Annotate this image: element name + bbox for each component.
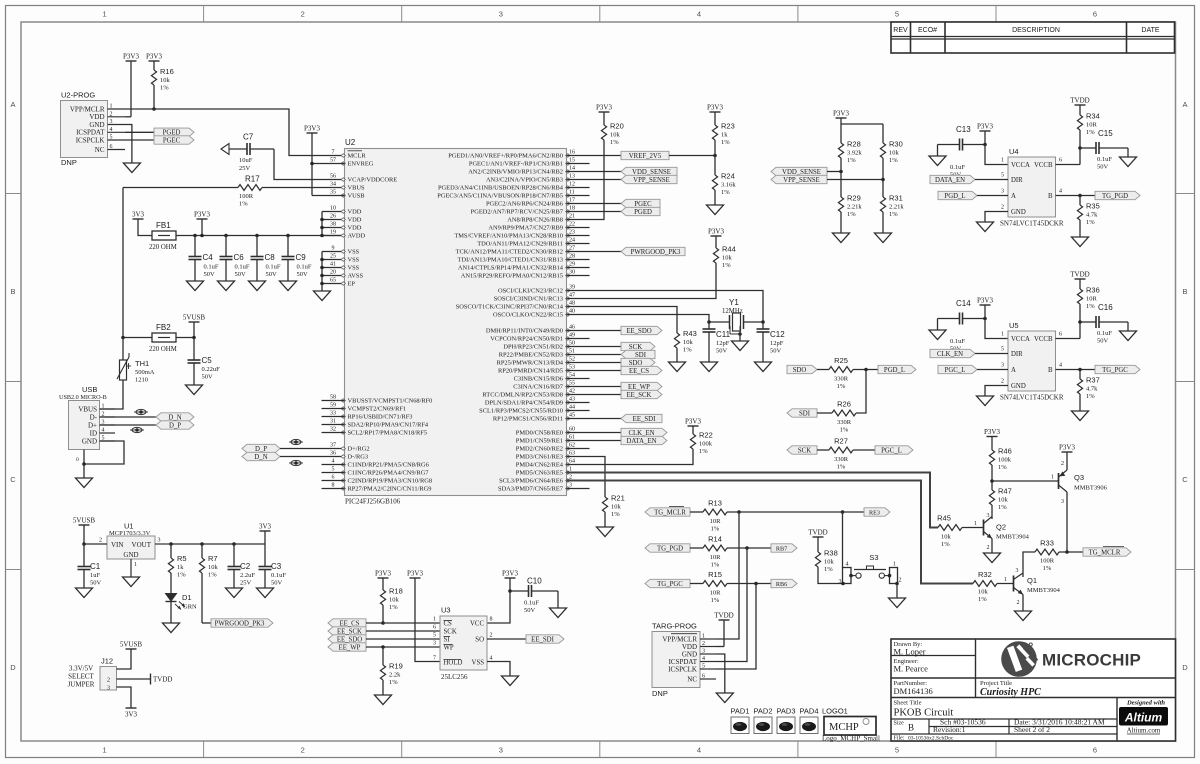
- wire FB2 left: [123, 337, 152, 339]
- capacitor C14: [938, 299, 986, 353]
- svg-text:VREF_2V5: VREF_2V5: [629, 153, 662, 160]
- svg-text:P3V3: P3V3: [123, 53, 139, 61]
- regulator U1 body: [107, 522, 155, 560]
- svg-text:Q1: Q1: [1027, 576, 1037, 585]
- svg-text:VCMPST2/CN69/RF1: VCMPST2/CN69/RF1: [348, 406, 407, 413]
- svg-text:B: B: [1182, 287, 1187, 296]
- wire U4 B out: [1056, 195, 1096, 197]
- junction R16/MCLR: [152, 107, 156, 111]
- svg-text:10uF: 10uF: [239, 157, 253, 164]
- svg-text:SI: SI: [444, 637, 451, 644]
- ground (R29): [833, 233, 850, 243]
- svg-text:P3V3: P3V3: [977, 297, 993, 305]
- svg-text:1%: 1%: [1086, 393, 1095, 400]
- svg-text:P3V3: P3V3: [146, 53, 162, 61]
- svg-text:GND: GND: [89, 121, 104, 129]
- svg-text:PGED3/AN4/C1INB/USBOEN/RP28/CN: PGED3/AN4/C1INB/USBOEN/RP28/CN6/RB4: [438, 185, 564, 192]
- svg-text:0.1uF: 0.1uF: [950, 164, 965, 171]
- svg-text:1%: 1%: [711, 597, 720, 604]
- svg-text:VPP_SENSE: VPP_SENSE: [783, 177, 820, 184]
- svg-text:C3INA/CN16/RD7: C3INA/CN16/RD7: [513, 384, 564, 391]
- svg-text:TH1: TH1: [135, 359, 149, 368]
- svg-text:13: 13: [569, 174, 575, 180]
- svg-text:18: 18: [569, 206, 575, 212]
- svg-text:1%: 1%: [239, 201, 248, 208]
- resistor R15: [690, 570, 771, 604]
- svg-text:56: 56: [330, 174, 336, 180]
- port EE_SDI (U2): [621, 414, 662, 423]
- power P3V3 (U5): [977, 297, 993, 306]
- svg-text:GND: GND: [1011, 209, 1026, 216]
- J12 pin2 wire: [107, 678, 150, 684]
- svg-text:MMBT3904: MMBT3904: [996, 534, 1030, 541]
- port TG_PGC: [1095, 365, 1140, 374]
- svg-text:3: 3: [987, 513, 990, 519]
- svg-text:PAD2: PAD2: [753, 707, 772, 716]
- svg-text:0.1uF: 0.1uF: [950, 338, 965, 345]
- svg-text:USB: USB: [82, 385, 97, 394]
- svg-text:AVSS: AVSS: [348, 273, 364, 280]
- svg-text:6: 6: [702, 674, 705, 680]
- svg-text:30: 30: [569, 270, 575, 276]
- svg-text:22: 22: [569, 222, 575, 228]
- svg-text:3: 3: [1001, 189, 1004, 195]
- junction S3 pin2: [895, 582, 899, 586]
- svg-text:EE_SDI: EE_SDI: [531, 636, 554, 643]
- svg-text:2: 2: [490, 633, 493, 639]
- svg-text:4: 4: [1059, 189, 1062, 195]
- svg-text:1%: 1%: [847, 211, 856, 218]
- svg-text:MMBT3904: MMBT3904: [1027, 587, 1061, 594]
- svg-text:SDA3/PMD7/CN65/RE7: SDA3/PMD7/CN65/RE7: [498, 486, 564, 493]
- svg-text:R17: R17: [245, 175, 260, 184]
- svg-text:1%: 1%: [837, 464, 846, 471]
- svg-text:4: 4: [702, 656, 705, 662]
- svg-text:ENVREG: ENVREG: [348, 161, 374, 168]
- svg-text:SCL2/RP17/PMA8/CN18/RF5: SCL2/RP17/PMA8/CN18/RF5: [348, 430, 428, 437]
- svg-text:R26: R26: [837, 400, 851, 409]
- svg-text:50V: 50V: [524, 607, 536, 614]
- svg-text:SCL3/PMD6/CN64/RE6: SCL3/PMD6/CN64/RE6: [499, 478, 563, 485]
- svg-text:4: 4: [846, 562, 849, 568]
- title block grid: [891, 639, 1176, 741]
- svg-text:03-10536x2.SchDoc: 03-10536x2.SchDoc: [908, 736, 954, 742]
- connector TARG-PROG body: [652, 622, 700, 699]
- svg-text:25LC256: 25LC256: [441, 673, 468, 681]
- wire DATA_EN: [567, 440, 622, 442]
- LED D1: [166, 593, 198, 611]
- wire RB3: [567, 179, 622, 181]
- junction R46/R47/Q3: [990, 479, 994, 483]
- svg-text:R35: R35: [1086, 202, 1100, 211]
- svg-text:1: 1: [1001, 158, 1004, 164]
- svg-text:TVDD: TVDD: [808, 529, 827, 537]
- svg-text:17: 17: [569, 198, 575, 204]
- transistor Q3: [1059, 452, 1108, 552]
- svg-text:100R: 100R: [239, 193, 254, 200]
- port TG_PGC (in): [645, 579, 690, 588]
- svg-text:VSS: VSS: [348, 249, 360, 256]
- fiducial PAD2: [753, 707, 772, 734]
- junction R18/EE_CS: [381, 621, 385, 625]
- svg-text:EE_CS: EE_CS: [629, 368, 649, 375]
- U2 right stubs (n/c): [567, 164, 590, 489]
- port EE_WP (U3): [328, 643, 366, 652]
- svg-text:C1INC/RP26/PMA4/CN9/RG7: C1INC/RP26/PMA4/CN9/RG7: [348, 470, 430, 477]
- svg-text:R25: R25: [834, 356, 848, 365]
- svg-text:VCCA: VCCA: [1011, 162, 1030, 169]
- svg-text:C1: C1: [90, 562, 101, 571]
- svg-text:10R: 10R: [1086, 296, 1098, 303]
- resistor R43: [674, 329, 696, 362]
- svg-text:MCHP: MCHP: [829, 722, 859, 733]
- svg-text:VBUS: VBUS: [348, 185, 365, 192]
- svg-text:6: 6: [1093, 746, 1097, 755]
- resistor R30: [880, 140, 902, 198]
- capacitor C2: [228, 544, 256, 588]
- wire VPP/MCLR to U2: [125, 109, 345, 156]
- svg-text:3: 3: [433, 641, 436, 647]
- wire SDO: [567, 362, 622, 364]
- svg-text:52: 52: [569, 357, 575, 363]
- part number U5: [1000, 394, 1064, 402]
- svg-text:220 OHM: 220 OHM: [149, 346, 177, 353]
- wire Q3 base: [992, 475, 1059, 482]
- wire EE_SDO: [567, 330, 622, 332]
- svg-text:C2: C2: [240, 562, 251, 571]
- port TG_PGD (in): [645, 544, 690, 553]
- svg-text:59: 59: [330, 403, 336, 409]
- svg-text:DPLN/SDA1/RP4/CN54/RD9: DPLN/SDA1/RP4/CN54/RD9: [485, 400, 563, 407]
- svg-text:16: 16: [569, 150, 575, 156]
- svg-text:5: 5: [1001, 173, 1004, 179]
- svg-text:VUSB: VUSB: [348, 193, 365, 200]
- power P3V3 (R44): [708, 228, 724, 237]
- svg-text:P3V3: P3V3: [1059, 444, 1075, 452]
- svg-text:100k: 100k: [998, 457, 1012, 464]
- svg-text:R31: R31: [889, 194, 903, 203]
- svg-text:D+: D+: [88, 421, 97, 429]
- svg-text:1%: 1%: [177, 572, 186, 579]
- svg-text:GND: GND: [82, 437, 97, 445]
- wire TVDD to VDD pin: [716, 620, 724, 647]
- svg-text:2.2k: 2.2k: [389, 672, 401, 679]
- ground (C10): [550, 608, 567, 618]
- svg-text:R33: R33: [1040, 539, 1054, 548]
- resistor R35: [1077, 196, 1099, 238]
- port D_P (U2 side): [242, 444, 280, 453]
- svg-text:VSS: VSS: [472, 660, 485, 667]
- resistor R37: [1077, 370, 1099, 412]
- U2 VDD bus: [320, 212, 344, 238]
- svg-text:50: 50: [569, 341, 575, 347]
- svg-text:1: 1: [103, 746, 107, 755]
- capacitor C3: [259, 544, 287, 588]
- wire R7 to port: [202, 622, 211, 624]
- wire EE_CS: [567, 370, 622, 372]
- svg-text:32: 32: [330, 427, 336, 433]
- svg-text:PGD_L: PGD_L: [944, 193, 965, 200]
- svg-text:AN8/RP8/CN26/RB8: AN8/RP8/CN26/RB8: [507, 217, 563, 224]
- wire SDI: [567, 354, 622, 356]
- svg-text:39: 39: [569, 285, 575, 291]
- ground (Q1): [1015, 611, 1032, 621]
- svg-text:55: 55: [569, 381, 575, 387]
- svg-text:R46: R46: [998, 447, 1012, 456]
- svg-text:10R: 10R: [710, 554, 722, 561]
- svg-text:46: 46: [569, 325, 575, 331]
- svg-text:10k: 10k: [889, 150, 900, 157]
- svg-text:ECO#: ECO#: [918, 27, 937, 34]
- capacitor C11: [703, 322, 731, 362]
- ground (C3): [257, 588, 274, 598]
- power P3V3 (U2-PROG VDD): [123, 53, 139, 62]
- wire U3 VSS: [487, 662, 510, 677]
- svg-text:R45: R45: [937, 514, 951, 523]
- svg-text:1%: 1%: [389, 679, 398, 686]
- svg-text:TG_PGC: TG_PGC: [1102, 367, 1128, 374]
- svg-text:DATE: DATE: [1141, 27, 1159, 34]
- svg-text:3: 3: [839, 579, 842, 585]
- svg-text:0.1uF: 0.1uF: [1097, 330, 1112, 337]
- resistor R13: [690, 499, 864, 533]
- svg-text:36: 36: [330, 451, 336, 457]
- resistor R14: [690, 535, 771, 569]
- svg-text:C6: C6: [234, 253, 245, 262]
- svg-text:RTCC/DMLN/RP2/CN53/RD8: RTCC/DMLN/RP2/CN53/RD8: [482, 392, 563, 399]
- junction R13/TARG: [737, 510, 741, 514]
- svg-text:C10: C10: [527, 577, 542, 586]
- svg-text:WP: WP: [444, 645, 454, 652]
- svg-text:MMBT3906: MMBT3906: [1074, 485, 1108, 492]
- svg-text:4: 4: [697, 746, 701, 755]
- resistor R34: [1077, 105, 1099, 165]
- svg-text:100k: 100k: [699, 441, 713, 448]
- svg-text:10R: 10R: [710, 518, 722, 525]
- svg-text:MCLR: MCLR: [348, 153, 367, 160]
- ground (D1): [163, 623, 180, 633]
- port VDD_SENSE (U2): [621, 167, 677, 176]
- ground (C6): [218, 281, 235, 291]
- svg-text:2: 2: [301, 746, 305, 755]
- svg-text:C5: C5: [202, 356, 213, 365]
- wire D_N to U2: [280, 456, 345, 458]
- svg-text:AN3/C2INA/VPIO/CN5/RB3: AN3/C2INA/VPIO/CN5/RB3: [486, 177, 563, 184]
- wire FB1 rail to U2 AVDD: [176, 235, 345, 237]
- port EE_SCK (U3): [328, 627, 366, 636]
- svg-text:6: 6: [433, 625, 436, 631]
- svg-text:1uF: 1uF: [90, 572, 101, 579]
- svg-text:1%: 1%: [721, 139, 730, 146]
- svg-text:Altium.com: Altium.com: [1127, 727, 1161, 735]
- svg-text:TMS/CVREF/AN10/PMA13/CN28/RB10: TMS/CVREF/AN10/PMA13/CN28/RB10: [454, 233, 563, 240]
- svg-text:Q3: Q3: [1074, 473, 1084, 482]
- svg-text:VCCB: VCCB: [1034, 162, 1053, 169]
- svg-text:4: 4: [1059, 363, 1062, 369]
- wire P3V3 to U4 pin1: [985, 145, 1008, 165]
- resistor R16: [151, 61, 173, 109]
- svg-text:FB1: FB1: [156, 221, 171, 230]
- svg-text:TG_MCLR: TG_MCLR: [654, 509, 686, 516]
- svg-text:P3V3: P3V3: [685, 418, 701, 426]
- wire OSCI: [567, 291, 764, 323]
- svg-text:41: 41: [330, 262, 336, 268]
- wire P3V3 to VCC: [487, 578, 510, 623]
- power TVDD (TARG): [714, 612, 733, 621]
- port PGEC: [154, 136, 194, 145]
- power 5VUSB (J12): [120, 641, 143, 650]
- svg-text:C1IND/RP21/PMA5/CN8/RG6: C1IND/RP21/PMA5/CN8/RG6: [348, 462, 429, 469]
- svg-text:SDA2/RP10/PMA9/CN17/RF4: SDA2/RP10/PMA9/CN17/RF4: [348, 422, 429, 429]
- svg-text:EE_SDO: EE_SDO: [626, 328, 651, 335]
- svg-text:51: 51: [569, 349, 575, 355]
- resistor R23: [707, 104, 735, 176]
- svg-text:50V: 50V: [235, 271, 247, 278]
- wire C7 to VCAP: [274, 149, 345, 180]
- svg-text:PGEC3/AN5/C1INA/VBUSON/RP18/CN: PGEC3/AN5/C1INA/VBUSON/RP18/CN7/RB5: [437, 193, 563, 200]
- svg-text:P3V3: P3V3: [984, 428, 1000, 436]
- power P3V3 (R20): [596, 104, 612, 113]
- svg-text:4: 4: [110, 127, 113, 133]
- connector U2-PROG body: [61, 91, 108, 168]
- svg-text:5VUSB: 5VUSB: [120, 641, 143, 649]
- power 3V3 (U1 out): [259, 523, 272, 545]
- svg-text:1: 1: [1051, 475, 1054, 481]
- fiducial PAD1: [730, 707, 749, 734]
- svg-text:R34: R34: [1086, 112, 1100, 121]
- svg-text:SCL1/RP3/PMCS2/CN55/RD10: SCL1/RP3/PMCS2/CN55/RD10: [479, 408, 563, 415]
- resistor R19: [380, 647, 402, 695]
- svg-text:TG_PGD: TG_PGD: [1102, 193, 1128, 200]
- port VDD_SENSE (div): [771, 167, 827, 176]
- transistor Q1: [1014, 568, 1061, 611]
- IC U4 body: [1008, 147, 1056, 217]
- port VPP_SENSE (U2): [621, 175, 677, 184]
- svg-text:2: 2: [99, 538, 102, 544]
- svg-text:6: 6: [1059, 158, 1062, 164]
- svg-text:NC: NC: [95, 146, 105, 154]
- svg-text:RP25/PMWR/CN13/RD4: RP25/PMWR/CN13/RD4: [497, 360, 564, 367]
- svg-text:R44: R44: [722, 245, 736, 254]
- svg-text:63: 63: [569, 451, 575, 457]
- port EE_CS (U3): [328, 619, 366, 628]
- svg-text:33: 33: [330, 411, 336, 417]
- svg-text:7: 7: [332, 150, 335, 156]
- svg-text:0.1uF: 0.1uF: [297, 264, 312, 271]
- svg-text:D_P: D_P: [169, 422, 181, 429]
- svg-text:27: 27: [569, 246, 575, 252]
- ground (C12): [755, 362, 772, 372]
- port EE_SDO (U2): [621, 326, 662, 335]
- capacitor C8: [251, 234, 281, 281]
- svg-text:5: 5: [433, 633, 436, 639]
- wire U4 GND: [985, 212, 1008, 223]
- svg-text:R43: R43: [683, 329, 697, 338]
- svg-text:R19: R19: [389, 662, 403, 671]
- svg-text:PMD1/CN59/RE1: PMD1/CN59/RE1: [516, 438, 563, 445]
- wire CLK_EN to DIR: [975, 353, 1008, 355]
- wire USB D- to port: [100, 416, 157, 418]
- svg-text:NC: NC: [687, 675, 697, 683]
- svg-text:SDI: SDI: [799, 410, 811, 417]
- svg-text:SN74LVC1T45DCKR: SN74LVC1T45DCKR: [1000, 220, 1064, 228]
- svg-text:62: 62: [569, 443, 575, 449]
- svg-text:P3V3: P3V3: [833, 110, 849, 118]
- svg-text:P3V3: P3V3: [708, 228, 724, 236]
- svg-text:R37: R37: [1086, 376, 1100, 385]
- svg-text:AVDD: AVDD: [348, 233, 366, 240]
- junction C2 rail: [232, 542, 236, 546]
- wire VBUS vertical: [122, 188, 124, 338]
- U2-PROG pins: [70, 104, 125, 154]
- svg-text:U3: U3: [441, 606, 451, 615]
- svg-text:50V: 50V: [1097, 164, 1109, 171]
- svg-text:1: 1: [1001, 332, 1004, 338]
- svg-text:61: 61: [569, 435, 575, 441]
- transistor Q2: [984, 513, 1030, 553]
- junction C14/P3V3: [983, 305, 987, 320]
- svg-text:6: 6: [1093, 10, 1097, 19]
- svg-text:RP20/PMRD/CN14/RD5: RP20/PMRD/CN14/RD5: [498, 368, 563, 375]
- svg-text:2.21k: 2.21k: [889, 204, 904, 211]
- svg-text:TARG-PROG: TARG-PROG: [652, 622, 697, 631]
- svg-text:R7: R7: [208, 554, 218, 563]
- resistor R47: [989, 487, 1011, 520]
- title block text: [894, 641, 1105, 742]
- USB shield pin: [76, 450, 84, 465]
- wire C10 to gnd: [557, 591, 559, 608]
- svg-text:TDI/AN13/PMA10/CTED1/CN31/RB13: TDI/AN13/PMA10/CTED1/CN31/RB13: [458, 257, 563, 264]
- ground (C4): [187, 281, 204, 291]
- port PGEC (U2): [621, 199, 660, 208]
- power 3V3 (J12): [125, 708, 138, 719]
- power 5VUSB (U1): [73, 517, 96, 526]
- svg-text:28: 28: [569, 254, 575, 260]
- port PGC_L (R27): [875, 446, 913, 455]
- svg-text:MICROCHIP: MICROCHIP: [1042, 651, 1141, 670]
- svg-text:10k: 10k: [683, 339, 694, 346]
- svg-text:3: 3: [1016, 568, 1019, 574]
- svg-text:TVDD: TVDD: [1070, 97, 1089, 105]
- svg-text:Altium: Altium: [1124, 711, 1163, 725]
- ground (USB): [76, 478, 93, 488]
- svg-text:DPH/RP23/CN51/RD2: DPH/RP23/CN51/RD2: [503, 344, 563, 351]
- junction B/R35: [1078, 194, 1082, 198]
- svg-text:R14: R14: [708, 535, 722, 544]
- power P3V3 (ENVREG): [304, 125, 320, 134]
- wire RB7: [567, 211, 622, 213]
- svg-text:58: 58: [330, 395, 336, 401]
- port SCK (R27): [787, 446, 817, 455]
- svg-text:5VUSB: 5VUSB: [73, 517, 96, 525]
- ground (C9): [280, 281, 297, 291]
- junction R26 net: [864, 368, 868, 372]
- svg-text:2: 2: [110, 111, 113, 117]
- capacitor C13: [938, 125, 986, 179]
- port RB7: [771, 544, 797, 553]
- svg-text:9: 9: [332, 246, 335, 252]
- wire S3 to gnd: [896, 584, 898, 599]
- svg-text:P3V3: P3V3: [375, 570, 391, 578]
- svg-text:C3: C3: [271, 562, 282, 571]
- svg-text:1: 1: [134, 562, 137, 568]
- svg-text:1%: 1%: [611, 511, 620, 518]
- junction VREF/R23: [713, 154, 717, 158]
- U2 right pin names/numbers: [437, 150, 575, 493]
- svg-text:A: A: [1011, 367, 1016, 374]
- capacitor C5: [188, 338, 221, 386]
- wire RE4 to R22: [567, 449, 694, 465]
